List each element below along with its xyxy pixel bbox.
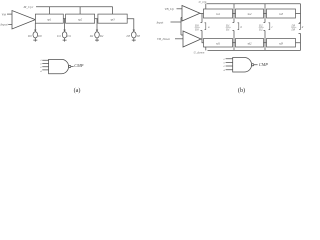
svg-text:τu1: τu1 xyxy=(216,12,221,16)
svg-text:τd1: τd1 xyxy=(216,41,221,45)
svg-text:U_Up: U_Up xyxy=(199,0,207,4)
svg-text:Vth: Vth xyxy=(2,12,7,16)
svg-text:D3: D3 xyxy=(291,28,296,32)
wire B3 output xyxy=(127,19,134,31)
svg-text:d: d xyxy=(302,25,304,29)
wire U3 output xyxy=(201,39,204,43)
svg-text:D1: D1 xyxy=(56,34,61,38)
svg-text:D0: D0 xyxy=(27,34,32,38)
varactor V2 xyxy=(56,19,71,42)
svg-text:t4: t4 xyxy=(223,69,226,72)
op-amp U2 up buffer (b) xyxy=(182,6,200,22)
wire D1-D2 xyxy=(233,42,236,44)
svg-text:M_Cyc: M_Cyc xyxy=(23,5,34,9)
svg-text:(a): (a) xyxy=(74,87,81,94)
wire Input to buffer xyxy=(8,23,12,25)
wire Vth to buffer xyxy=(7,13,12,15)
NAND gate G1 (a) xyxy=(49,59,74,73)
svg-text:τp1: τp1 xyxy=(47,17,52,21)
varactor V3 xyxy=(89,19,104,42)
svg-text:τd2: τd2 xyxy=(247,41,252,45)
svg-text:(b): (b) xyxy=(238,87,245,94)
node tap group g1 xyxy=(194,14,210,40)
svg-text:τd3: τd3 xyxy=(279,41,284,45)
svg-text:τp3: τp3 xyxy=(111,17,116,21)
wire T2-T3 xyxy=(264,13,267,15)
svg-text:D2: D2 xyxy=(89,34,94,38)
wire Input split (b) xyxy=(171,18,184,36)
delay cell B2 (a) xyxy=(66,14,95,23)
svg-text:U_down: U_down xyxy=(194,50,205,54)
node tap group g2 xyxy=(225,14,243,43)
svg-text:D0: D0 xyxy=(194,28,199,32)
svg-text:D2: D2 xyxy=(99,34,104,38)
delay cell D1 (b bottom) xyxy=(204,39,233,48)
svg-text:t2: t2 xyxy=(223,62,226,65)
wire B2-B3 xyxy=(95,18,98,20)
svg-text:a: a xyxy=(208,25,210,29)
delay cell B1 (a) xyxy=(35,14,63,23)
wire VB_Down to buffer xyxy=(175,38,183,40)
svg-text:D1: D1 xyxy=(225,28,230,32)
svg-text:τu3: τu3 xyxy=(279,12,284,16)
svg-text:VB_Down: VB_Down xyxy=(157,37,171,41)
svg-text:D2: D2 xyxy=(258,28,263,32)
wire U_down bottom bus (b) xyxy=(206,43,301,51)
wire U2 output xyxy=(200,13,204,15)
svg-text:D3: D3 xyxy=(136,34,141,38)
node tap group g4 xyxy=(291,23,304,32)
wire VB_Up to buffer xyxy=(177,8,183,10)
NAND G1 input pins xyxy=(40,59,49,73)
svg-text:t2: t2 xyxy=(40,63,43,66)
delay cell T3 (b top) xyxy=(267,9,296,18)
svg-text:t1: t1 xyxy=(223,58,225,61)
NAND gate G2 (b) xyxy=(233,58,258,73)
svg-text:D1: D1 xyxy=(66,34,71,38)
svg-text:c: c xyxy=(272,25,274,29)
wire D3 output right xyxy=(296,34,301,43)
NAND G2 input pins xyxy=(223,58,232,72)
svg-text:CMP: CMP xyxy=(74,63,84,68)
svg-text:D3: D3 xyxy=(126,34,131,38)
node tap group g3 xyxy=(258,14,274,43)
svg-text:VB_Up: VB_Up xyxy=(165,7,175,11)
svg-text:τu2: τu2 xyxy=(247,12,252,16)
svg-text:t4: t4 xyxy=(40,70,43,73)
wire M_Cyc top bus (a) xyxy=(36,7,113,14)
delay cell T1 (b top) xyxy=(204,9,233,18)
delay cell D3 (b bottom) xyxy=(267,39,296,48)
svg-text:t1: t1 xyxy=(40,59,42,62)
wire U_Up top bus (b) xyxy=(206,4,301,14)
wire D2-D3 xyxy=(264,42,267,44)
svg-text:t3: t3 xyxy=(223,65,226,68)
op-amp U1 input buffer (a) xyxy=(12,11,35,30)
svg-text:CMP: CMP xyxy=(259,62,269,67)
svg-text:Input: Input xyxy=(156,21,164,25)
svg-text:Input: Input xyxy=(0,23,9,27)
svg-text:τp2: τp2 xyxy=(78,17,83,21)
svg-text:b: b xyxy=(241,25,243,29)
varactor V1 xyxy=(27,23,42,41)
wire T3 output right xyxy=(296,14,301,24)
wire B1-B2 xyxy=(63,18,65,20)
delay cell T2 (b top) xyxy=(236,9,264,18)
delay cell B3 (a) xyxy=(98,14,127,23)
svg-text:t3: t3 xyxy=(40,66,43,69)
delay cell D2 (b bottom) xyxy=(236,39,264,48)
wire T1-T2 xyxy=(233,13,236,15)
op-amp U3 down buffer (b) xyxy=(183,31,201,47)
varactor V4 xyxy=(126,30,141,42)
svg-text:D0: D0 xyxy=(37,34,42,38)
